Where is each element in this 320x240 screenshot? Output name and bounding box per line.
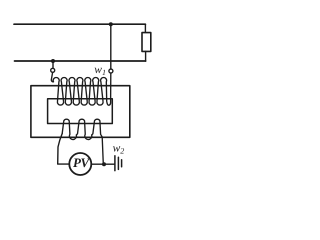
wire: top bus line L1 [14, 23, 145, 25]
ground bar 2 [117, 157, 119, 169]
wire: vertical from top bus to primary right terminal [110, 24, 112, 69]
ground stub [104, 163, 114, 165]
wire: PV right lead [91, 163, 104, 165]
wire: second bus line L2 [15, 60, 146, 62]
svg-text:PV: PV [73, 155, 91, 170]
resistor R [142, 33, 151, 52]
primary winding w1 coil [51, 72, 111, 105]
transformer inner core box [48, 99, 113, 124]
ground bar 1 [114, 156, 116, 171]
terminal circle left [51, 68, 55, 72]
svg-text:w1: w1 [94, 64, 106, 77]
transformer outer core box [31, 86, 130, 138]
node: junction dot right of PV [102, 162, 106, 166]
node: junction dot on second bus [51, 59, 55, 63]
terminal circle right [109, 69, 113, 73]
voltmeter PV [69, 153, 91, 175]
ground bar 3 [121, 160, 123, 167]
wire: top bus to resistor lead [144, 24, 146, 32]
secondary winding w2 coil [62, 119, 103, 164]
node: junction dot on top bus [109, 22, 113, 26]
svg-text:w2: w2 [113, 142, 125, 155]
wire: secondary left end down to PV [58, 134, 70, 165]
wire: second bus to primary left terminal [52, 61, 54, 68]
wire: resistor bottom lead [145, 51, 147, 61]
